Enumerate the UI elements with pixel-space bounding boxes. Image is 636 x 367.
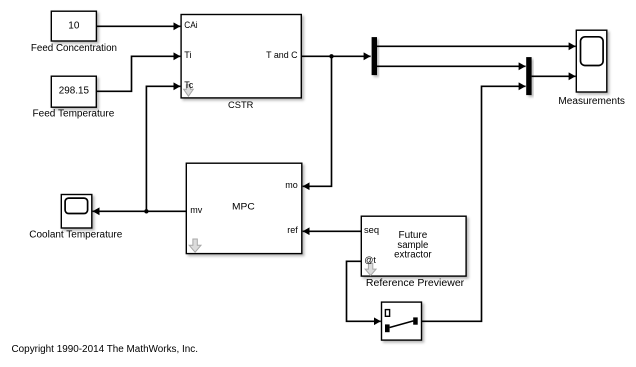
subsystem block Reference Previewer (Future sample extractor) bbox=[361, 216, 466, 276]
svg-text:MPC: MPC bbox=[232, 201, 255, 212]
junction node on mv wire bbox=[144, 209, 148, 213]
svg-text:@t: @t bbox=[364, 255, 376, 265]
svg-text:Tc: Tc bbox=[184, 80, 194, 90]
junction node on T and C wire bbox=[329, 54, 333, 58]
wire MPC mv -> Coolant Temperature scope bbox=[93, 210, 187, 212]
svg-text:mv: mv bbox=[190, 205, 202, 215]
svg-text:extractor: extractor bbox=[394, 249, 432, 260]
svg-text:Measurements: Measurements bbox=[558, 96, 625, 107]
svg-text:Feed Temperature: Feed Temperature bbox=[33, 109, 115, 120]
wire T and C junction -> MPC mo bbox=[303, 56, 332, 186]
wire Mux -> Measurements in2 bbox=[532, 75, 576, 77]
svg-text:Copyright 1990-2014 The MathWo: Copyright 1990-2014 The MathWorks, Inc. bbox=[12, 344, 199, 355]
svg-text:CAi: CAi bbox=[184, 20, 197, 30]
mux block bbox=[526, 57, 531, 95]
svg-text:Coolant Temperature: Coolant Temperature bbox=[29, 230, 122, 241]
scope block Coolant Temperature bbox=[61, 195, 92, 229]
constant block Feed Concentration value 10 bbox=[51, 11, 96, 41]
wire Feed Concentration -> CSTR CAi bbox=[96, 25, 180, 27]
wire mv junction -> CSTR Tc bbox=[146, 86, 180, 211]
svg-text:seq: seq bbox=[364, 225, 379, 235]
subsystem block CSTR bbox=[181, 15, 301, 98]
svg-text:298.15: 298.15 bbox=[59, 86, 90, 97]
badge CSTR mask arrow bbox=[184, 85, 194, 96]
constant block Feed Temperature value 298.15 bbox=[51, 76, 96, 107]
wire CSTR T and C -> Demux bbox=[301, 55, 370, 57]
svg-text:mo: mo bbox=[285, 180, 298, 190]
block Manual Switch bbox=[382, 302, 422, 340]
wire Demux out1 -> Measurements in1 bbox=[377, 45, 576, 47]
wire Reference Previewer @t -> Manual Switch bbox=[347, 261, 381, 321]
svg-text:ref: ref bbox=[287, 225, 298, 235]
svg-text:Reference Previewer: Reference Previewer bbox=[366, 278, 465, 289]
wire Manual Switch -> Mux in2 bbox=[422, 86, 526, 321]
svg-text:10: 10 bbox=[68, 20, 80, 31]
svg-text:Ti: Ti bbox=[184, 50, 191, 60]
scope block Measurements bbox=[576, 30, 607, 92]
wire Feed Temperature -> CSTR Ti bbox=[96, 56, 180, 91]
wire Demux out2 -> Mux in1 bbox=[377, 65, 526, 67]
controller block MPC bbox=[186, 163, 301, 253]
badge Reference Previewer mask arrow bbox=[365, 263, 376, 275]
badge MPC mask arrow bbox=[189, 239, 201, 252]
svg-text:CSTR: CSTR bbox=[228, 100, 254, 111]
demux block bbox=[372, 37, 377, 75]
svg-text:T and C: T and C bbox=[266, 50, 298, 60]
wire Reference Previewer seq -> MPC ref bbox=[303, 230, 362, 232]
svg-text:Feed Concentration: Feed Concentration bbox=[31, 43, 117, 54]
